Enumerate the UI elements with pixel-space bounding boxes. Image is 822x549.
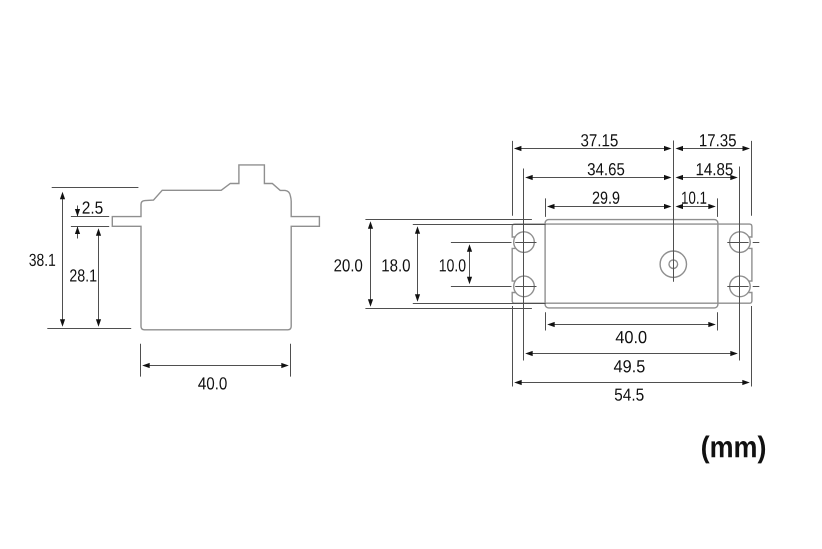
label 38.1: "38.1" [29,254,55,266]
extension line: flange bottom (2.5) [71,226,109,228]
dimension line 10.1 [676,204,716,209]
label 20.0: "20.0" [334,259,362,271]
dimension line 17.35 [676,146,751,151]
dimension line 34.65 [525,175,671,180]
extension line: body right (40.0 bottom) [717,312,719,330]
extension line: flange right (54.5 bottom) [751,306,753,387]
extension line: flange left edge (top) [512,141,514,216]
dimension line 14.85 [676,175,738,180]
extension line: hole span top (10.0) [451,242,512,244]
dimension line 10.0 [467,244,472,284]
center line: right bottom hole (horizontal) [727,286,759,288]
extension line: body left (40.0) [140,344,142,377]
mounting hole 3 [730,232,751,253]
label 54.5: "54.5" [615,389,644,401]
extension line: flange top (2.5) [71,216,109,218]
label 2.5: "2.5" [83,201,103,213]
extension line: body bottom (20.0) [365,308,532,310]
label 10.1: "10.1" [682,192,706,204]
label 49.5: "49.5" [614,360,645,372]
extension line: body left (40.0 bottom) [545,312,547,330]
center line: left top hole (horizontal) [505,242,537,244]
label 40.0 (side view): "40.0" [198,377,227,389]
output shaft circle [660,251,686,277]
extension line: flange bottom (18.0) [413,303,546,305]
mounting hole 1 [514,232,535,253]
center line: left bottom hole (horizontal) [505,286,537,288]
extension line: hole span bottom (10.0) [451,286,512,288]
center line: right top hole (horizontal) [727,242,759,244]
servo body side-view outline [112,165,319,330]
dimension line 29.9 [547,204,672,209]
center line: right hole axis (vertical) [739,167,741,361]
dimension line 18.0 [415,226,420,302]
dimension line 40.0 (body width, side view) [142,363,289,368]
dimension line 37.15 [514,146,672,151]
servo body top-view rectangle [545,220,718,308]
extension line: flange left (54.5 bottom) [512,306,514,387]
extension line: body left edge (top) [545,198,547,217]
label 17.35: "17.35" [700,134,736,146]
extension line: top of case [52,187,139,189]
extension line: body right edge (top) [717,198,719,217]
extension line: flange top (18.0) [413,224,546,226]
dimension line 40.0 (top view) [547,322,716,327]
dimension line 38.1 (overall height) [60,192,65,327]
label 40.0 (top view): "40.0" [616,331,647,343]
mounting hole 4 [730,276,751,297]
dimension 2.5 (flange thickness, arrows outside) [75,206,80,239]
servo mounting-flange top-view outline [512,224,752,303]
units label (mm): "(mm)" [702,436,765,464]
label 28.1: "28.1" [70,269,96,281]
dimension line 28.1 [96,228,101,327]
label 34.65: "34.65" [588,163,625,175]
dimension line 20.0 [368,221,373,307]
label 14.85: "14.85" [697,163,733,175]
center line: output shaft axis (vertical) [673,141,675,282]
label 18.0: "18.0" [382,259,410,271]
extension line: bottom of case [47,328,131,330]
output shaft center hole [669,260,678,269]
extension line: flange right edge (top) [751,141,753,216]
dimension line 54.5 [514,380,750,385]
extension line: body right (40.0) [290,344,292,377]
center line: left hole axis (vertical) [523,169,525,361]
extension line: body top (20.0) [365,219,532,221]
mounting hole 2 [514,276,535,297]
label 10.0: "10.0" [440,259,466,271]
dimension line 49.5 [525,351,738,356]
label 29.9: "29.9" [593,192,620,204]
label 37.15: "37.15" [581,134,618,146]
